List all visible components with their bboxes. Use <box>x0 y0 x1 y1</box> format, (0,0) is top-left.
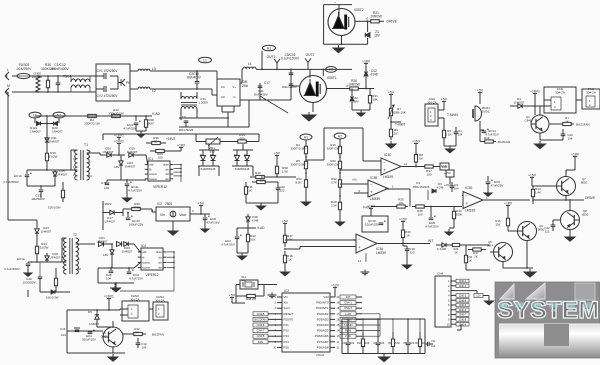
svg-text:1N4007: 1N4007 <box>52 129 63 133</box>
svg-text:CN4-7: CN4-7 <box>257 329 265 333</box>
svg-text:D8: D8 <box>244 153 248 157</box>
svg-text:10K: 10K <box>259 178 264 182</box>
svg-text:T-MAIN: T-MAIN <box>447 113 458 117</box>
svg-text:P24: P24 <box>284 340 290 344</box>
svg-text:DR.LN223: DR.LN223 <box>179 128 194 132</box>
svg-text:vdd: vdd <box>142 250 147 254</box>
svg-text:IC3C: IC3C <box>384 153 392 157</box>
svg-text:source: source <box>142 261 150 265</box>
svg-text:+18V3: +18V3 <box>103 202 112 206</box>
svg-text:C72: C72 <box>101 181 107 185</box>
svg-text:+15V: +15V <box>444 171 451 175</box>
svg-text:1K: 1K <box>406 233 410 237</box>
svg-text:100: 100 <box>426 172 431 176</box>
svg-text:10K: 10K <box>372 98 378 102</box>
svg-text:AC: AC <box>221 85 225 89</box>
svg-text:10R471: 10R471 <box>32 75 43 79</box>
svg-text:47uF/25V: 47uF/25V <box>491 183 504 187</box>
svg-text:47uF/16V: 47uF/16V <box>206 220 220 224</box>
svg-text:IC4: IC4 <box>141 244 146 248</box>
svg-text:EC10: EC10 <box>14 174 22 178</box>
svg-text:1K: 1K <box>565 119 569 123</box>
svg-text:V-AD: V-AD <box>152 112 160 116</box>
svg-text:P26/AD8: P26/AD8 <box>317 345 329 349</box>
svg-text:IC2: IC2 <box>157 202 162 206</box>
svg-text:L: L <box>7 68 9 72</box>
svg-text:330K*0.1W: 330K*0.1W <box>84 121 100 125</box>
svg-text:51/2W: 51/2W <box>40 245 49 249</box>
svg-text:104: 104 <box>410 341 415 345</box>
svg-text:LM339: LM339 <box>383 175 393 179</box>
svg-text:Vin: Vin <box>160 213 165 217</box>
svg-text:P23: P23 <box>284 334 290 338</box>
svg-text:P20/T0: P20/T0 <box>284 317 294 321</box>
svg-text:AC: AC <box>221 95 225 99</box>
svg-text:1N4007: 1N4007 <box>122 249 133 253</box>
svg-text:1K: 1K <box>422 341 425 345</box>
svg-text:4.7uF/400V: 4.7uF/400V <box>4 267 21 271</box>
svg-text:T2: T2 <box>73 233 77 237</box>
svg-text:680: 680 <box>239 136 244 140</box>
svg-text:+18V: +18V <box>504 201 513 205</box>
svg-text:+5V: +5V <box>388 90 395 94</box>
svg-text:N1: N1 <box>57 113 61 117</box>
svg-text:DRIVE: DRIVE <box>585 196 596 200</box>
svg-text:2.3K: 2.3K <box>331 203 337 207</box>
svg-text:104: 104 <box>61 333 66 337</box>
svg-text:din: din <box>158 261 162 265</box>
svg-text:VIPER12: VIPER12 <box>153 185 167 189</box>
svg-text:7805: 7805 <box>165 202 172 206</box>
svg-text:5VDC: 5VDC <box>482 109 491 113</box>
svg-text:V+: V+ <box>233 85 237 89</box>
svg-text:18V: 18V <box>353 100 359 104</box>
svg-text:1K*: 1K* <box>394 132 400 136</box>
svg-text:~: ~ <box>334 1 336 5</box>
svg-text:C11: C11 <box>431 339 436 343</box>
svg-text:FAN: FAN <box>441 164 447 168</box>
svg-text:T-IGBT: T-IGBT <box>395 123 406 127</box>
svg-text:D8: D8 <box>210 153 214 157</box>
svg-text:+15V: +15V <box>444 183 451 187</box>
svg-text:SYSTEM: SYSTEM <box>497 297 599 324</box>
svg-text:+18V1: +18V1 <box>530 89 540 93</box>
svg-text:+15V: +15V <box>399 217 408 221</box>
svg-text:BUZ2FAN: BUZ2FAN <box>576 123 590 127</box>
svg-text:300uF/25V: 300uF/25V <box>82 337 96 341</box>
svg-text:1:3000: 1:3000 <box>198 100 208 104</box>
svg-text:1N4007: 1N4007 <box>514 100 525 104</box>
svg-text:8nF/400V: 8nF/400V <box>187 76 202 80</box>
svg-text:din: din <box>165 172 169 176</box>
svg-text:104: 104 <box>350 341 355 345</box>
svg-text:Xout: Xout <box>284 306 290 310</box>
svg-text:L3: L3 <box>152 67 156 71</box>
svg-text:FAN: FAN <box>258 340 263 344</box>
svg-text:UF4007: UF4007 <box>50 255 61 259</box>
svg-text:Xin: Xin <box>284 301 289 305</box>
svg-text:C945: C945 <box>525 118 532 122</box>
svg-text:P01/INT1: P01/INT1 <box>316 306 329 310</box>
svg-text:P22: P22 <box>284 329 290 333</box>
svg-text:104: 104 <box>106 276 111 280</box>
svg-text:8148D8148: 8148D8148 <box>235 167 250 171</box>
svg-text:10K: 10K <box>398 201 403 205</box>
svg-text:Vdd: Vdd <box>323 295 329 299</box>
svg-text:1N4007: 1N4007 <box>89 322 99 326</box>
svg-text:P05/AD5: P05/AD5 <box>317 329 329 333</box>
svg-text:VIPER12: VIPER12 <box>145 273 158 277</box>
svg-text:C11: C11 <box>342 341 347 345</box>
svg-text:1R2/500V: 1R2/500V <box>31 197 46 201</box>
svg-text:P02/AD2: P02/AD2 <box>317 312 329 316</box>
svg-text:OUT1: OUT1 <box>267 55 276 59</box>
svg-text:4.7uF/600V: 4.7uF/600V <box>3 180 20 184</box>
svg-text:+18V: +18V <box>367 204 376 208</box>
svg-text:1.9K: 1.9K <box>282 169 288 173</box>
svg-text:503B-10K: 503B-10K <box>392 111 407 115</box>
svg-text:20A/250V: 20A/250V <box>17 67 33 71</box>
svg-text:P04/AD4: P04/AD4 <box>317 323 329 327</box>
svg-text:din: din <box>165 167 169 171</box>
svg-text:+15V: +15V <box>412 139 421 143</box>
svg-text:D7: D7 <box>200 153 204 157</box>
svg-text:L1: L1 <box>248 62 252 66</box>
svg-text:30#-2A: 30#-2A <box>555 90 566 94</box>
svg-text:R6: R6 <box>415 341 419 345</box>
svg-text:100uF/25V: 100uF/25V <box>365 222 379 226</box>
svg-text:8050: 8050 <box>581 180 588 184</box>
svg-text:1N4007: 1N4007 <box>127 150 138 154</box>
svg-text:1N4007: 1N4007 <box>49 139 60 143</box>
svg-text:N: N <box>7 84 10 88</box>
svg-text:IC3D: IC3D <box>465 186 473 190</box>
svg-text:INT: INT <box>428 239 433 243</box>
svg-text:10K: 10K <box>495 222 500 226</box>
svg-text:CN6-6: CN6-6 <box>459 308 467 312</box>
svg-text:12V: 12V <box>476 294 481 298</box>
svg-text:222: 222 <box>280 188 285 192</box>
svg-text:10R/2W: 10R/2W <box>370 15 382 19</box>
svg-text:CN4-3: CN4-3 <box>344 306 352 310</box>
svg-text:K 4148: K 4148 <box>437 247 446 251</box>
svg-text:CY2 472/250V: CY2 472/250V <box>97 94 119 98</box>
svg-text:INT: INT <box>346 295 351 299</box>
svg-text:IC3B: IC3B <box>370 176 377 180</box>
svg-text:51K: 51K <box>250 237 255 241</box>
svg-text:IC1: IC1 <box>148 157 153 161</box>
svg-text:4148: 4148 <box>437 185 444 189</box>
svg-text:C14: C14 <box>60 327 66 331</box>
svg-text:8550: 8550 <box>582 212 589 216</box>
svg-text:14: 14 <box>404 162 408 166</box>
svg-text:1N4007: 1N4007 <box>125 164 136 168</box>
svg-text:1K: 1K <box>454 250 458 254</box>
svg-text:104: 104 <box>104 186 109 190</box>
svg-text:D7: D7 <box>234 153 238 157</box>
svg-text:9014: 9014 <box>487 243 494 247</box>
svg-text:8148D8148: 8148D8148 <box>201 167 216 171</box>
svg-text:DRIVE: DRIVE <box>387 20 398 24</box>
svg-text:C8: C8 <box>403 341 407 345</box>
svg-text:LM339: LM339 <box>376 251 386 255</box>
svg-text:3.7K: 3.7K <box>331 180 337 184</box>
svg-text:300K*/0.5W: 300K*/0.5W <box>290 146 305 150</box>
svg-text:H1: H1 <box>304 135 308 139</box>
svg-text:51K/0.5W: 51K/0.5W <box>46 296 59 300</box>
svg-text:104: 104 <box>568 136 573 140</box>
svg-text:UF4007: UF4007 <box>103 150 114 154</box>
svg-text:104: 104 <box>142 345 147 349</box>
svg-text:10K: 10K <box>287 237 292 241</box>
svg-text:source: source <box>149 172 157 176</box>
svg-text:+18V1: +18V1 <box>114 133 124 137</box>
svg-text:+18V: +18V <box>571 152 580 156</box>
svg-text:100: 100 <box>418 212 423 216</box>
svg-text:5.1K*: 5.1K* <box>445 132 453 136</box>
svg-text:BUZFAN: BUZFAN <box>498 140 510 144</box>
svg-text:51K/0.5W: 51K/0.5W <box>48 206 61 210</box>
svg-text:1N4007: 1N4007 <box>41 229 52 233</box>
svg-text:CN4-8: CN4-8 <box>257 334 265 338</box>
svg-text:H2: H2 <box>338 134 342 138</box>
svg-text:V-AD: V-AD <box>257 226 265 230</box>
svg-text:25A: 25A <box>242 84 249 88</box>
svg-text:BR1/1N2226: BR1/1N2226 <box>413 185 430 189</box>
svg-text:1K: 1K <box>288 257 292 261</box>
svg-text:LM339: LM339 <box>370 197 380 201</box>
svg-text:CN6-1: CN6-1 <box>459 279 467 283</box>
svg-text:10: 10 <box>78 267 82 271</box>
svg-text:drain: drain <box>156 250 162 254</box>
svg-text:0.1uF/1200V: 0.1uF/1200V <box>281 57 300 61</box>
svg-text:CN6-7: CN6-7 <box>459 313 467 317</box>
svg-text:T3/L4: T3/L4 <box>63 75 71 79</box>
svg-text:T1: T1 <box>84 143 88 147</box>
svg-text:104: 104 <box>380 341 385 345</box>
svg-text:10K: 10K <box>365 341 370 345</box>
svg-text:330K: 330K <box>133 205 140 209</box>
svg-text:221: 221 <box>545 229 550 233</box>
svg-text:4148: 4148 <box>370 73 377 77</box>
svg-text:5K: 5K <box>135 330 139 334</box>
svg-text:UF4007: UF4007 <box>105 219 116 223</box>
svg-text:P03/AD3: P03/AD3 <box>317 317 329 321</box>
svg-text:10R/2W: 10R/2W <box>348 83 360 87</box>
svg-text:8.2K*: 8.2K* <box>296 180 304 184</box>
svg-text:100: 100 <box>157 155 162 159</box>
svg-text:P07/AD7: P07/AD7 <box>317 340 329 344</box>
svg-text:din: din <box>158 266 162 270</box>
svg-text:4.7uF/25V: 4.7uF/25V <box>425 224 439 228</box>
svg-text:R18: R18 <box>357 341 362 345</box>
svg-text:R48 2M: R48 2M <box>246 297 257 301</box>
svg-text:OUT2: OUT2 <box>306 53 315 57</box>
svg-text:IC2: IC2 <box>284 289 289 293</box>
svg-text:200K: 200K <box>456 212 463 216</box>
svg-text:223: 223 <box>410 250 415 254</box>
svg-text:+5V: +5V <box>274 151 281 155</box>
svg-text:R19: R19 <box>484 136 490 140</box>
svg-text:PWM/AD6: PWM/AD6 <box>315 334 329 338</box>
svg-text:L1: L1 <box>203 58 207 62</box>
svg-text:drain: drain <box>163 163 169 167</box>
svg-text:L1: L1 <box>33 113 37 117</box>
svg-text:8nF/400V: 8nF/400V <box>254 93 268 97</box>
svg-text:CN4-6: CN4-6 <box>257 323 265 327</box>
svg-text:104: 104 <box>431 344 436 348</box>
svg-text:+18V: +18V <box>177 143 186 147</box>
svg-text:+12V: +12V <box>331 283 340 287</box>
svg-text:UF4007: UF4007 <box>97 239 108 243</box>
svg-text:vdd: vdd <box>149 163 154 167</box>
svg-text:LM339: LM339 <box>465 209 475 213</box>
svg-text:CY1 472/250V: CY1 472/250V <box>97 69 119 73</box>
svg-text:102/500V: 102/500V <box>22 280 36 284</box>
svg-text:330K*0.1W: 330K*0.1W <box>108 111 124 115</box>
svg-text:50K*: 50K* <box>148 121 155 125</box>
svg-text:+5V: +5V <box>229 293 236 297</box>
svg-text:47uF/50V: 47uF/50V <box>123 126 137 130</box>
svg-text:12: 12 <box>358 259 362 263</box>
svg-text:P25: P25 <box>284 345 290 349</box>
svg-text:4.8nF/400V: 4.8nF/400V <box>51 67 69 71</box>
svg-text:+5V: +5V <box>282 219 289 223</box>
svg-text:CN6-2: CN6-2 <box>459 284 467 288</box>
svg-text:300K*/2W: 300K*/2W <box>327 162 340 166</box>
svg-text:4.7uF/25V: 4.7uF/25V <box>129 276 144 280</box>
svg-text:10: 10 <box>89 174 93 178</box>
svg-text:Vin: Vin <box>284 295 289 299</box>
svg-text:104: 104 <box>458 132 463 136</box>
svg-text:IGBT1: IGBT1 <box>327 76 337 80</box>
svg-text:CN4-5: CN4-5 <box>257 312 265 316</box>
svg-text:5.1K: 5.1K <box>395 341 401 345</box>
svg-text:source: source <box>149 177 157 181</box>
svg-text:UF4007: UF4007 <box>57 172 68 176</box>
svg-text:V-: V- <box>233 95 236 99</box>
svg-text:BUZFAN: BUZFAN <box>152 333 164 337</box>
svg-text:CN4-1: CN4-1 <box>344 301 352 305</box>
svg-text:4.7uF/16V: 4.7uF/16V <box>221 242 235 246</box>
svg-text:18V: 18V <box>374 34 381 38</box>
svg-text:9050: 9050 <box>538 227 545 231</box>
svg-text:EC1a: EC1a <box>17 257 25 261</box>
svg-text:1.4K: 1.4K <box>535 190 541 194</box>
svg-text:104: 104 <box>454 186 459 190</box>
svg-text:CN6-8: CN6-8 <box>459 318 467 322</box>
svg-text:51/2W: 51/2W <box>49 154 58 158</box>
svg-text:Vout: Vout <box>179 213 186 217</box>
svg-text:300K*/2W: 300K*/2W <box>327 146 340 150</box>
svg-text:CN6-9: CN6-9 <box>459 322 467 326</box>
svg-text:+5V: +5V <box>352 178 357 182</box>
svg-text:+18V: +18V <box>362 59 371 63</box>
svg-text:+5V: +5V <box>441 97 448 101</box>
svg-text:D5: D5 <box>88 310 92 314</box>
svg-text:1N4007: 1N4007 <box>30 129 41 133</box>
svg-text:RESET: RESET <box>284 312 294 316</box>
svg-text:H1: H1 <box>267 46 271 50</box>
svg-text:CN6-4: CN6-4 <box>459 298 467 302</box>
svg-text:1K: 1K <box>248 188 252 192</box>
svg-text:din: din <box>158 255 162 259</box>
svg-text:300K*/0.5W: 300K*/0.5W <box>290 162 305 166</box>
svg-text:IGBT2: IGBT2 <box>354 8 364 12</box>
svg-text:51: 51 <box>154 139 158 143</box>
svg-text:5K: 5K <box>419 156 423 160</box>
svg-text:30#-2A: 30#-2A <box>586 90 597 94</box>
svg-text:+15V: +15V <box>528 173 537 177</box>
svg-text:4.7uF/25V: 4.7uF/25V <box>128 188 143 192</box>
svg-text:P00/INT0: P00/INT0 <box>316 301 329 305</box>
svg-text:+18V2: +18V2 <box>166 137 176 141</box>
svg-text:source: source <box>142 266 150 270</box>
svg-text:L2: L2 <box>152 89 156 93</box>
svg-text:CN4-9: CN4-9 <box>316 353 324 357</box>
svg-text:C17: C17 <box>264 81 270 85</box>
svg-text:D882: D882 <box>101 334 108 338</box>
svg-text:L-AD: L-AD <box>345 312 351 316</box>
svg-text:C3: C3 <box>373 341 377 345</box>
svg-text:100uF/25V: 100uF/25V <box>129 222 145 226</box>
svg-text:+5V: +5V <box>198 201 205 205</box>
svg-text:CN6-5: CN6-5 <box>459 303 467 307</box>
svg-text:CN4: CN4 <box>437 272 443 276</box>
svg-text:P21: P21 <box>284 323 290 327</box>
svg-text:H2: H2 <box>329 68 333 72</box>
svg-text:1K: 1K <box>468 258 472 262</box>
svg-text:+18V1: +18V1 <box>104 294 114 298</box>
svg-text:+5V: +5V <box>477 88 484 92</box>
svg-text:2K: 2K <box>474 254 478 258</box>
svg-text:R3: R3 <box>388 341 392 345</box>
svg-text:BUZ2FAN: BUZ2FAN <box>255 317 267 321</box>
svg-text:CN6-3: CN6-3 <box>459 294 467 298</box>
svg-text:din: din <box>165 177 169 181</box>
svg-text:4148: 4148 <box>252 218 259 222</box>
svg-text:PE: PE <box>126 81 131 85</box>
